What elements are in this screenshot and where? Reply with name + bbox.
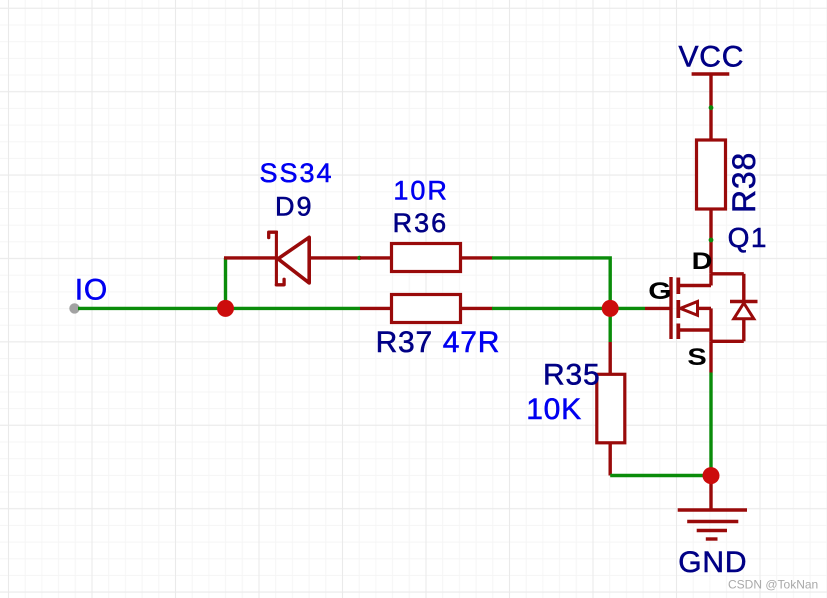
svg-text:R37: R37 [376,326,433,359]
junction dot B [602,300,619,317]
wire source down [709,341,712,372]
svg-text:D: D [692,247,713,274]
diode D9 (SS34 schottky) [269,231,310,286]
transistor Q1 MOSFET [671,274,744,342]
wire diode anode lead [310,256,361,259]
svg-text:G: G [648,277,671,304]
wire R37 to junction B [492,307,610,310]
svg-text:GND: GND [678,546,747,579]
wire junction B to gate [610,307,645,310]
pin end dot [709,238,714,243]
resistor R38 [697,140,726,209]
svg-text:10R: 10R [393,176,449,206]
wire R35 to GND junction [610,474,711,477]
svg-text:Q1: Q1 [728,222,768,253]
svg-text:SS34: SS34 [260,158,334,188]
node IO terminal dot [69,303,79,313]
resistor R36 [360,256,392,259]
resistor R35 [609,342,612,375]
pin end dot [357,256,361,260]
wire diode cathode lead [224,256,277,259]
wire R36 to junction B [492,258,610,308]
ground symbol [709,476,712,510]
svg-text:R36: R36 [393,208,449,238]
wire junction B down to R35 [609,308,612,342]
svg-text:D9: D9 [275,192,314,222]
junction dot C [703,467,720,484]
wire junction up to diode row [224,258,227,309]
svg-text:47R: 47R [443,326,500,359]
svg-text:CSDN @TokNan: CSDN @TokNan [728,577,818,591]
svg-text:VCC: VCC [679,40,745,73]
svg-text:10K: 10K [526,393,582,426]
junction dot A [217,300,234,317]
svg-text:R38: R38 [726,152,762,213]
resistor R37 [226,307,361,310]
svg-text:R35: R35 [543,358,600,391]
svg-text:S: S [687,343,706,370]
pin end dot [709,105,714,110]
wire IO to junction [78,307,226,310]
svg-text:IO: IO [75,273,108,306]
body diode of Q1 [711,274,758,342]
